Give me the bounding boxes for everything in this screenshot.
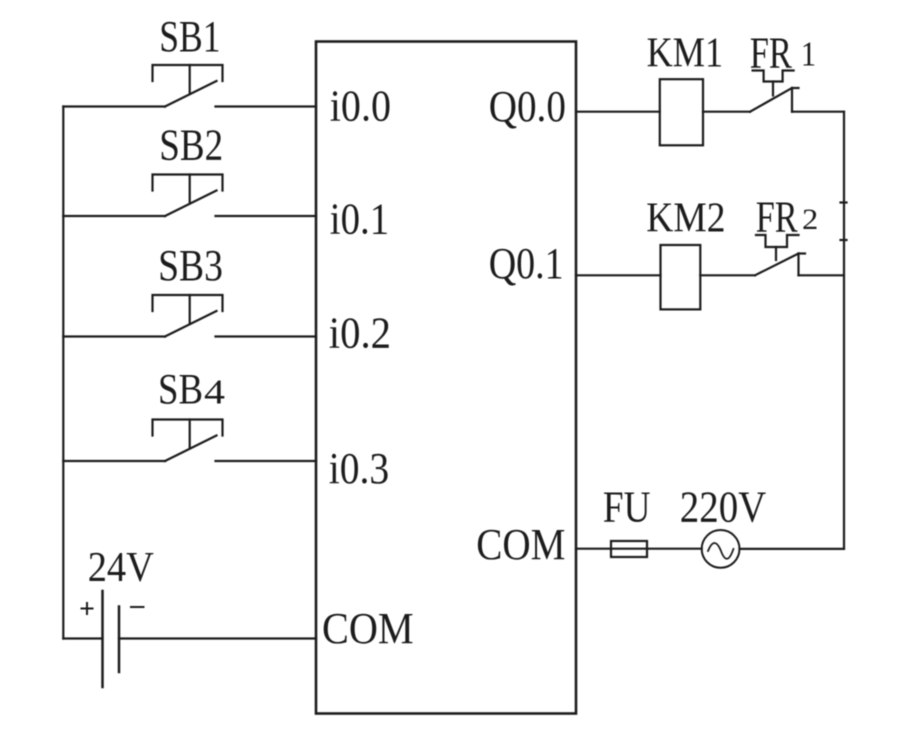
label FR1 xyxy=(750,29,817,78)
thermal relay contact FR2 xyxy=(755,235,805,275)
wire KM2 to FR2 xyxy=(700,274,755,276)
AC source 220V xyxy=(702,530,740,568)
wire Q0.1 to KM2 xyxy=(576,274,661,276)
battery 24V xyxy=(103,591,120,687)
pushbutton SB2 xyxy=(153,175,223,217)
svg-text:i0.0: i0.0 xyxy=(330,82,391,131)
battery plus sign xyxy=(82,603,93,614)
svg-text:SB: SB xyxy=(158,367,203,414)
wire SB3 left xyxy=(63,335,165,337)
wire SB1 left xyxy=(63,105,165,107)
svg-text:i0.3: i0.3 xyxy=(329,444,389,493)
wire bus to battery xyxy=(63,637,102,639)
wire SB2 to i0.1 xyxy=(216,215,317,217)
fuse FU xyxy=(611,541,647,557)
contactor coil KM1 xyxy=(660,79,703,145)
wire SB2 left xyxy=(63,215,165,217)
wire SB1 to i0.0 xyxy=(216,105,317,107)
wire SB4 to i0.3 xyxy=(216,460,317,462)
pushbutton SB1 xyxy=(153,65,223,107)
svg-text:COM: COM xyxy=(476,520,565,569)
right bus wire xyxy=(843,112,845,549)
svg-text:FR: FR xyxy=(756,192,798,241)
wire KM1 to FR1 xyxy=(703,111,750,113)
svg-text:4: 4 xyxy=(204,373,225,412)
svg-text:COM: COM xyxy=(322,604,414,653)
svg-text:220V: 220V xyxy=(680,483,767,532)
svg-text:KM1: KM1 xyxy=(647,31,724,77)
pushbutton SB3 xyxy=(153,295,223,337)
wire Q0.0 to KM1 xyxy=(576,111,660,113)
wire SB3 to i0.2 xyxy=(216,335,317,337)
svg-text:FU: FU xyxy=(603,483,651,532)
svg-text:FR: FR xyxy=(750,29,793,78)
wire battery to COM xyxy=(119,637,316,639)
wire SB4 left xyxy=(63,460,165,462)
svg-text:Q0.0: Q0.0 xyxy=(489,82,566,131)
svg-text:SB2: SB2 xyxy=(159,121,223,170)
svg-text:Q0.1: Q0.1 xyxy=(489,239,564,288)
bus tick marks xyxy=(841,203,847,241)
thermal relay contact FR1 xyxy=(750,71,799,112)
wire COM to fuse xyxy=(576,548,702,550)
label SB4 xyxy=(158,367,225,414)
svg-text:24V: 24V xyxy=(88,545,154,591)
left bus wire xyxy=(62,107,64,639)
svg-text:1: 1 xyxy=(801,35,816,74)
pushbutton SB4 xyxy=(153,420,223,462)
wire FR2 to right bus xyxy=(799,274,844,276)
wire source to right bus xyxy=(740,548,845,550)
contactor coil KM2 xyxy=(661,245,701,309)
svg-text:KM2: KM2 xyxy=(646,195,725,241)
battery minus sign xyxy=(131,606,144,608)
svg-text:i0.1: i0.1 xyxy=(330,194,389,243)
svg-text:2: 2 xyxy=(802,203,818,236)
wire FR1 to right bus xyxy=(792,111,844,113)
svg-text:SB3: SB3 xyxy=(158,241,223,290)
svg-text:i0.2: i0.2 xyxy=(329,308,391,357)
label FR2 xyxy=(756,192,819,241)
svg-text:SB1: SB1 xyxy=(159,12,220,61)
PLC box U1 xyxy=(316,42,576,714)
